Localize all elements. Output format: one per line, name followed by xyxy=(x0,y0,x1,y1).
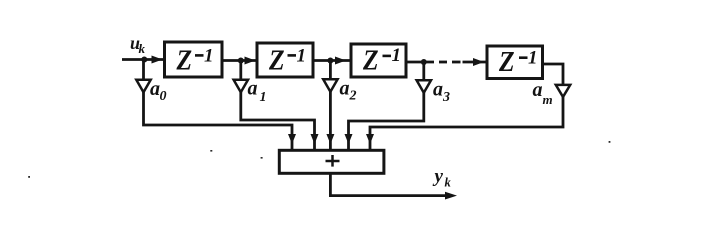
wire: a3 tap to summer with arrowhead xyxy=(345,93,424,150)
node J1 (tap junction for a1) xyxy=(238,58,244,64)
label a_m xyxy=(533,79,553,107)
delay block U2: Z^-1 xyxy=(257,43,313,77)
node J0 (tap junction for a0) xyxy=(141,57,147,63)
svg-text:a: a xyxy=(150,78,160,100)
gain triangle a2 xyxy=(323,61,337,92)
gain triangle a0 xyxy=(136,60,150,93)
svg-text:y: y xyxy=(433,166,444,187)
svg-text:1: 1 xyxy=(204,45,214,66)
input label u_k xyxy=(130,33,146,56)
scan speck xyxy=(261,157,263,159)
svg-text:1: 1 xyxy=(260,90,267,105)
svg-text:a: a xyxy=(248,78,258,100)
svg-text:a: a xyxy=(433,79,443,101)
wire: a2 tap straight to summer with arrowhead xyxy=(326,92,334,150)
wire: Z3 to node J3 xyxy=(406,61,434,64)
svg-text:k: k xyxy=(139,41,146,56)
gain triangle a_m xyxy=(556,85,570,97)
dashed wire into Z4 with arrowhead xyxy=(439,58,487,66)
label a0 xyxy=(150,78,167,104)
svg-text:Z: Z xyxy=(498,46,515,78)
wire: a0 tap to summer with arrowhead xyxy=(144,92,297,149)
svg-text:Z: Z xyxy=(362,44,379,76)
svg-text:1: 1 xyxy=(528,47,538,68)
node J2 (tap junction for a2) xyxy=(327,58,333,64)
wire: a_m tap to summer with arrowhead xyxy=(366,97,563,149)
gain triangle a3 xyxy=(417,62,431,93)
label a3 xyxy=(433,79,450,106)
plus sign in summer xyxy=(326,155,340,167)
delay block U4: Z^-1 xyxy=(487,46,543,79)
delay block U1: Z^-1 xyxy=(165,42,223,77)
svg-text:Z: Z xyxy=(268,44,285,76)
svg-text:1: 1 xyxy=(392,45,402,66)
svg-text:k: k xyxy=(445,175,452,189)
svg-text:1: 1 xyxy=(297,45,307,66)
label a1 xyxy=(248,78,267,106)
svg-text:Z: Z xyxy=(176,44,193,76)
delay block U3: Z^-1 xyxy=(351,44,406,77)
output label y_k xyxy=(433,166,452,189)
svg-text:a: a xyxy=(340,77,350,99)
scan speck xyxy=(609,141,611,143)
gain triangle a1 xyxy=(234,61,248,93)
svg-text:2: 2 xyxy=(349,89,357,104)
svg-text:a: a xyxy=(533,79,543,101)
scan speck xyxy=(28,176,30,178)
label a2 xyxy=(340,77,357,103)
wire: Z1 to Z2 with arrowhead xyxy=(222,57,257,65)
svg-text:0: 0 xyxy=(160,89,167,104)
summer U5 box xyxy=(279,150,384,173)
wire: Z2 to Z3 with arrowhead xyxy=(313,57,351,65)
svg-text:m: m xyxy=(543,92,553,107)
scan speck xyxy=(210,150,212,152)
wire: a1 tap to summer with arrowhead xyxy=(241,92,319,149)
wire: input into Z1 with arrowhead xyxy=(122,56,165,64)
svg-text:3: 3 xyxy=(442,90,450,105)
wire: summer output y_k with arrowhead xyxy=(330,174,457,200)
node J3 (tap junction for a3) xyxy=(421,59,427,65)
wire: Z4 output over to a_m tap xyxy=(543,64,564,85)
